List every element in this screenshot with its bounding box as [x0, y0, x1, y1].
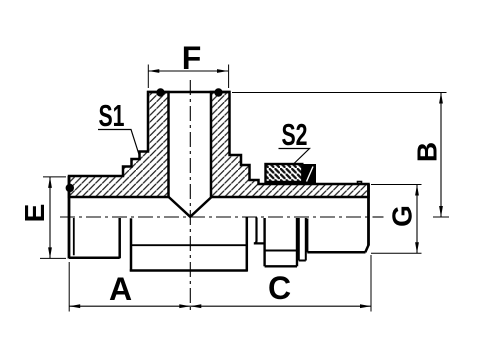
dimension E extension lines [40, 177, 66, 259]
svg-text:A: A [109, 271, 132, 307]
dimension G line [416, 185, 418, 254]
dimension F extension lines [148, 65, 228, 89]
dimension A arrows [69, 304, 190, 308]
leader S1 [98, 130, 139, 155]
right stud thread-start line [306, 219, 308, 253]
dimension B bottom tick [433, 216, 449, 218]
left port chamfer line [73, 218, 75, 255]
hex body corner line [131, 244, 248, 246]
svg-text:S2: S2 [282, 117, 308, 152]
body right section (hatched wall: right wall of vertical port + right arm) [211, 92, 369, 197]
hex body bottom [130, 269, 248, 272]
dimension G arrows [415, 185, 419, 254]
dimension A and C line [69, 305, 371, 307]
svg-text:E: E [19, 204, 50, 223]
right stud end face [367, 184, 370, 245]
body left section (hatched wall: left arm + left wall of vertical port) [69, 92, 169, 197]
dimension F arrows [148, 69, 228, 73]
seal dot on left port face [66, 184, 74, 192]
svg-text:F: F [182, 40, 202, 76]
dimension C extension line [370, 255, 372, 312]
leader S2 [279, 149, 310, 165]
dimension E line [49, 177, 51, 259]
washer bottom [299, 260, 306, 262]
svg-text:B: B [412, 142, 443, 162]
dimension E arrows [48, 177, 52, 259]
right stud bottom chamfer [365, 245, 368, 253]
locknut external right face [296, 218, 298, 266]
right stud thread bottom line [307, 251, 365, 254]
drill cone V at bore junction [169, 197, 212, 217]
hex body left face [130, 218, 133, 271]
top face edge of vertical port [147, 91, 231, 94]
left port thread-end line [118, 218, 121, 258]
washer right edge [305, 218, 307, 261]
svg-text:S1: S1 [99, 98, 125, 133]
dimension A extension line [68, 262, 70, 312]
locknut external left face [263, 218, 265, 266]
left port bottom line [69, 256, 120, 259]
horizontal centerline [60, 216, 368, 218]
seal dot top-left of vertical port [156, 88, 164, 96]
svg-text:G: G [387, 205, 418, 227]
locknut external corner line [265, 250, 297, 252]
hex body right face [246, 217, 249, 272]
thread runout bump on right stud [358, 182, 362, 184]
dimension B line [440, 93, 442, 218]
bonded seal next to locknut [304, 165, 316, 184]
stud shoulder behind locknut [254, 218, 265, 244]
svg-text:C: C [268, 270, 291, 306]
dimension B arrows [439, 93, 443, 218]
dimension B extension line top [232, 92, 447, 94]
locknut external bottom [265, 265, 297, 267]
seal dot top-right of vertical port [214, 88, 222, 96]
left port face line [68, 176, 71, 259]
vertical centerline [189, 80, 191, 312]
dimension F line [148, 70, 228, 72]
washer left edge [298, 218, 300, 261]
dimension G extension lines [371, 185, 422, 254]
dimension C arrows [190, 304, 371, 308]
locknut S2 (hatched) [266, 164, 303, 182]
